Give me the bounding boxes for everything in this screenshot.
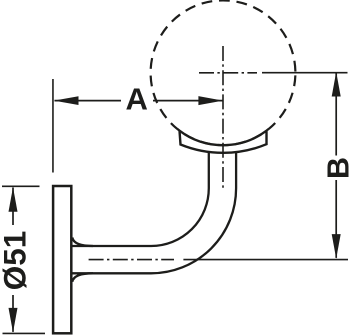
svg-text:Ø51: Ø51	[0, 231, 32, 291]
svg-text:B: B	[322, 157, 350, 179]
svg-text:A: A	[126, 82, 148, 117]
